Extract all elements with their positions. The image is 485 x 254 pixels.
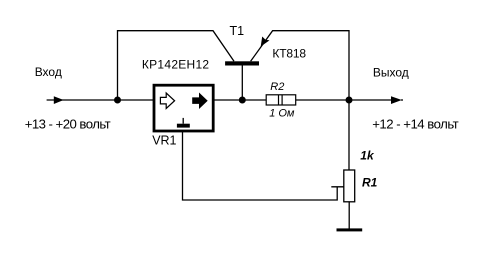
svg-text:Вход: Вход (35, 65, 62, 79)
svg-text:R1: R1 (362, 175, 378, 189)
svg-text:VR1: VR1 (152, 133, 176, 147)
svg-text:+13 - +20 вольт: +13 - +20 вольт (25, 117, 111, 132)
svg-text:КР142ЕН12: КР142ЕН12 (142, 58, 210, 72)
svg-text:T1: T1 (230, 24, 245, 38)
svg-text:КТ818: КТ818 (272, 46, 306, 60)
svg-text:1 Ом: 1 Ом (269, 108, 295, 120)
svg-text:1k: 1k (360, 148, 375, 162)
svg-text:R2: R2 (270, 81, 284, 93)
svg-text:Выход: Выход (373, 66, 409, 80)
svg-text:+12 - +14 вольт: +12 - +14 вольт (372, 117, 459, 132)
